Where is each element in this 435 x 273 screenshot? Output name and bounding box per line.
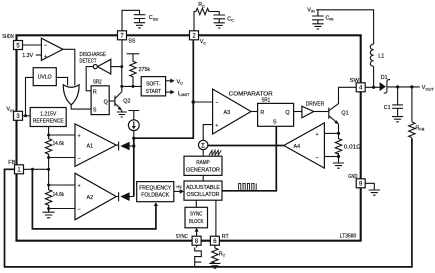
wire ramp generator to oscillator — [202, 175, 204, 181]
wire SR2 Q to Q2 base — [109, 100, 115, 102]
ground under sense resistor — [333, 163, 344, 168]
summing node sigma — [199, 140, 208, 149]
svg-text:LT3580: LT3580 — [340, 233, 357, 239]
wire chain mid2 — [48, 206, 50, 211]
svg-text:−: − — [316, 155, 319, 161]
svg-text:0.01Ω: 0.01Ω — [344, 144, 361, 150]
wire RFB top — [411, 87, 413, 122]
ground under CIN — [312, 24, 323, 29]
svg-text:SYNC: SYNC — [176, 234, 188, 240]
SR2 latch — [91, 86, 109, 115]
svg-text:RAMP: RAMP — [196, 160, 210, 166]
svg-text:FREQUENCY: FREQUENCY — [139, 185, 171, 191]
soft-start ILIMIT arrow — [166, 90, 175, 95]
pin 9 GND — [356, 179, 365, 188]
wire sync block to oscillator — [195, 200, 197, 207]
resistor RT external — [212, 248, 218, 263]
wire inverter out to SR2 R input — [86, 67, 93, 91]
ground under divider chain — [43, 209, 55, 218]
svg-text:14.6k: 14.6k — [53, 192, 65, 198]
UVLO box U2 — [33, 68, 56, 86]
wire VIN node up to UVLO — [26, 77, 34, 115]
wire A1 minus input — [49, 157, 75, 159]
wire L1 bottom to SW node — [373, 66, 375, 87]
resistor 14.6k upper — [45, 139, 51, 156]
OR gate — [63, 85, 79, 105]
wire A4 plus input — [324, 132, 338, 134]
resistor RC — [195, 8, 211, 14]
wire RT resistor stub — [214, 245, 216, 248]
wire C1 bottom — [397, 108, 399, 116]
ground under Q2 — [117, 112, 127, 117]
svg-text:ADJUSTABLE: ADJUSTABLE — [186, 185, 220, 191]
arrow pin8 into sync block — [195, 228, 199, 232]
svg-text:A3: A3 — [224, 110, 231, 116]
wire FB to frequency foldback — [32, 169, 155, 229]
pin 4 SW — [356, 83, 365, 92]
pin 6 RT — [210, 236, 219, 245]
pin 2 VC — [190, 31, 199, 40]
wire CIN stub — [317, 10, 319, 16]
wire C1 stub — [397, 87, 399, 105]
svg-text:Q: Q — [104, 100, 108, 106]
ground under CC — [214, 23, 225, 28]
wire Q1 collector to SW pin4 — [339, 87, 357, 99]
svg-text:UVLO: UVLO — [38, 75, 52, 81]
ramp generator box — [184, 156, 222, 175]
wire A3 plus input from sigma — [203, 125, 212, 141]
pin 3 VIN — [14, 111, 23, 120]
pin 1 FB — [15, 165, 24, 174]
SR1 latch — [258, 103, 294, 126]
svg-text:VIN: VIN — [7, 107, 15, 113]
svg-text:START: START — [146, 89, 162, 95]
svg-text:GENERATOR: GENERATOR — [186, 167, 220, 173]
svg-text:Q: Q — [285, 110, 289, 116]
svg-text:RT: RT — [222, 234, 230, 240]
svg-text:A2: A2 — [87, 195, 94, 201]
wire 1.3V to comparator plus — [36, 54, 42, 56]
sense resistor 0.01ohm — [335, 139, 341, 155]
svg-text:A1: A1 — [87, 144, 94, 150]
wire VIN top rail — [316, 10, 373, 44]
svg-text:−: − — [44, 43, 47, 49]
wire SHDN pin5 to comparator minus — [23, 44, 42, 46]
wire sigma bottom to ramp generator — [202, 150, 204, 157]
wire SW pin4 to D1 and VOUT — [365, 86, 420, 88]
junction dots — [24, 114, 27, 117]
transistor Q2 — [115, 90, 122, 112]
svg-text:S: S — [93, 108, 97, 114]
svg-text:R: R — [260, 110, 264, 116]
resistor 275k — [127, 54, 140, 87]
svg-text:VC: VC — [177, 80, 184, 86]
discharge detect inverter — [93, 59, 111, 74]
comparator shutdown amp — [41, 38, 63, 60]
soft-start VC arrow — [166, 79, 175, 84]
svg-text:RFB: RFB — [415, 125, 424, 131]
svg-text:−: − — [78, 207, 81, 213]
svg-text:−: − — [215, 100, 218, 106]
svg-text:BLOCK: BLOCK — [189, 219, 204, 225]
wire driver to Q1 base — [314, 111, 329, 113]
svg-text:+N: +N — [176, 184, 182, 189]
svg-text:S: S — [273, 119, 277, 125]
svg-text:D1: D1 — [381, 75, 388, 81]
svg-text:SR2: SR2 — [93, 79, 102, 85]
wire RFB bottom external feedback loop — [5, 138, 412, 267]
resistor 14.6k lower — [45, 190, 51, 207]
svg-text:CC: CC — [227, 16, 234, 22]
svg-text:SYNC: SYNC — [190, 212, 203, 218]
driver buffer — [302, 106, 314, 118]
svg-text:VIN: VIN — [307, 7, 315, 13]
svg-text:DRIVER: DRIVER — [306, 102, 325, 108]
soft-start box — [141, 77, 165, 96]
svg-text:SW: SW — [350, 78, 360, 84]
svg-text:SS: SS — [128, 39, 136, 45]
svg-text:SOFT-: SOFT- — [146, 82, 161, 88]
arrow FB into foldback — [154, 202, 158, 206]
wire A3 minus input — [193, 101, 212, 103]
wire VC main line — [134, 40, 194, 139]
wire SS line pin7 down — [121, 40, 123, 90]
comparator A3 — [213, 89, 251, 134]
svg-text:FB: FB — [8, 160, 15, 166]
capacitor CIN — [312, 16, 324, 24]
svg-text:Q2: Q2 — [123, 99, 130, 105]
sawtooth ramp icon — [209, 150, 221, 155]
wire current source bottom — [133, 131, 135, 138]
inductor L1 — [370, 44, 373, 66]
svg-text:R: R — [93, 90, 97, 96]
op-amp A4 — [284, 123, 325, 168]
IC outline LT3580 — [17, 35, 361, 240]
svg-text:CIN: CIN — [326, 15, 334, 21]
svg-text:Σ: Σ — [201, 143, 205, 150]
wire Q1 emitter down to sense — [338, 128, 340, 139]
pin 5 SHDN — [14, 41, 23, 50]
ground under CSS — [134, 23, 145, 28]
svg-text:+: + — [316, 132, 319, 138]
svg-text:275k: 275k — [139, 67, 151, 73]
svg-text:SHDN: SHDN — [2, 34, 14, 40]
wire oscillator out to SR1 S — [222, 126, 276, 191]
op-amp A1 — [75, 124, 116, 167]
wire SR1 Q to driver — [294, 111, 302, 113]
svg-text:1.215V: 1.215V — [40, 111, 56, 117]
svg-text:+: + — [215, 123, 218, 129]
pin 8 SYNC — [192, 236, 201, 245]
pin 7 SS — [118, 31, 127, 40]
ground under RT — [209, 263, 220, 268]
current source I1 — [128, 111, 139, 131]
capacitor CC — [213, 15, 225, 23]
svg-text:CSS: CSS — [149, 15, 159, 21]
frequency foldback box — [137, 182, 174, 202]
wire A4 minus input — [324, 156, 338, 158]
wire A3 out to SR1 R — [251, 111, 258, 113]
svg-text:SR1: SR1 — [261, 98, 270, 104]
wire comparator out to OR gate right input — [63, 49, 75, 85]
ground at pin9 — [369, 190, 380, 195]
wire A2 minus input — [49, 208, 75, 210]
svg-text:C1: C1 — [384, 105, 391, 111]
wire pin7 SS to CSS cap — [122, 10, 140, 31]
wire 275k row to soft-start — [122, 85, 141, 87]
wire A1 plus input — [49, 134, 75, 136]
svg-text:14.6k: 14.6k — [53, 141, 65, 147]
op-amp A2 — [75, 173, 116, 220]
ground under C1 — [392, 117, 403, 122]
wire FB pin1 internal — [24, 168, 49, 170]
svg-text:+: + — [78, 133, 81, 139]
wire pin8 to sync block arrow — [196, 230, 198, 236]
wire pin2 VC to RC — [193, 12, 196, 32]
svg-text:REFERENCE: REFERENCE — [33, 119, 64, 125]
sync square wave source — [195, 247, 202, 266]
svg-text:+: + — [78, 183, 81, 189]
svg-text:DISCHARGE: DISCHARGE — [80, 52, 107, 58]
wire inverter input to SS line — [111, 66, 122, 68]
adjustable oscillator box — [184, 181, 222, 200]
wire chain mid1 — [48, 155, 50, 190]
foldback output arrow +N — [174, 184, 184, 193]
svg-text:Q1: Q1 — [341, 110, 348, 116]
wire reference chain top — [48, 127, 50, 139]
wire diode junction vertical — [133, 137, 135, 196]
svg-text:OSCILLATOR: OSCILLATOR — [187, 192, 220, 198]
wire OR out to SR2 S input — [71, 105, 91, 110]
capacitor C1 — [392, 105, 403, 108]
wire pin3 VIN to reference — [23, 115, 31, 117]
wire A4 out to sigma — [208, 145, 284, 147]
svg-text:+: + — [44, 54, 47, 60]
svg-text:DETECT: DETECT — [80, 59, 98, 65]
svg-text:RT: RT — [219, 252, 226, 258]
transistor Q1 — [329, 99, 339, 129]
1.215V reference box — [30, 108, 66, 127]
svg-text:L1: L1 — [378, 54, 384, 60]
svg-text:GND: GND — [348, 174, 357, 180]
svg-text:1.3V: 1.3V — [22, 53, 33, 59]
svg-text:VC: VC — [200, 39, 207, 45]
svg-text:A4: A4 — [294, 144, 301, 150]
sync block box — [185, 207, 208, 228]
svg-text:FOLDBACK: FOLDBACK — [141, 193, 169, 199]
capacitor CSS — [134, 15, 146, 23]
svg-text:RC: RC — [198, 2, 205, 8]
wire sync source stub — [196, 245, 198, 247]
wire pin9 GND to ground — [365, 183, 374, 190]
svg-text:ILIMIT: ILIMIT — [178, 91, 190, 97]
diode D1 schottky — [380, 80, 391, 94]
svg-text:VOUT: VOUT — [422, 85, 435, 91]
diode at A2 output — [116, 192, 134, 201]
svg-text:−: − — [78, 156, 81, 162]
wire RC to CC cap — [210, 12, 219, 15]
resistor RFB — [409, 122, 415, 138]
diode at A1 output — [116, 142, 134, 151]
wire pin6 RT to oscillator — [215, 200, 217, 236]
wire UVLO out to OR gate left input — [56, 77, 67, 85]
comb oscillator waveform — [239, 183, 257, 190]
wire A2 plus input — [49, 184, 75, 186]
wire sense resistor bottom to ground — [338, 153, 340, 163]
